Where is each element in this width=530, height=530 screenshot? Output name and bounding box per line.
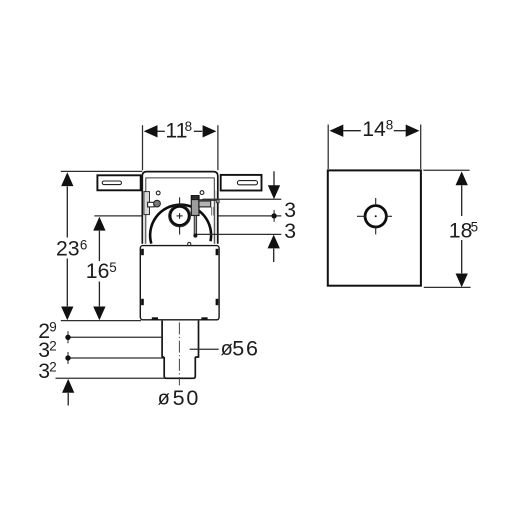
valve arm drop lines bbox=[210, 207, 212, 216]
supply union nut bbox=[154, 200, 161, 207]
svg-text:2: 2 bbox=[49, 360, 56, 375]
fill valve cap bbox=[192, 195, 199, 199]
hole top-right bbox=[200, 191, 204, 195]
pipe upper (d56) bbox=[162, 321, 198, 357]
supply bracket strip bbox=[144, 192, 150, 215]
dim 14.8 extension line right bbox=[420, 125, 422, 170]
label 3.2 lower bbox=[38, 360, 57, 383]
tank tab mid-left bbox=[141, 299, 144, 305]
frame outer housing bbox=[142, 172, 218, 244]
dim 11.8 extension line right bbox=[217, 125, 219, 170]
svg-text:9: 9 bbox=[49, 320, 56, 335]
supply elbow stub bbox=[148, 202, 155, 207]
svg-text:5: 5 bbox=[471, 219, 478, 234]
plate circle crosshair bbox=[357, 198, 392, 234]
flange left bbox=[97, 175, 140, 190]
dim 16.5 vertical line with arrows bbox=[93, 217, 105, 320]
svg-text:ø: ø bbox=[158, 388, 170, 410]
svg-text:18: 18 bbox=[449, 220, 473, 243]
svg-text:14: 14 bbox=[362, 118, 386, 141]
frame wall cavity left bbox=[143, 191, 145, 244]
pipe centerline bbox=[178, 322, 180, 385]
pipe lower (d50) bbox=[164, 357, 195, 378]
tank tab top-right bbox=[216, 249, 219, 255]
valve arm stub through wall bbox=[216, 200, 219, 203]
tank foot left bbox=[152, 317, 158, 320]
svg-text:8: 8 bbox=[185, 119, 192, 134]
dim 14.8 extension line left bbox=[327, 125, 329, 170]
centerline (line B) right part bbox=[191, 215, 282, 217]
label 16.5 bbox=[86, 260, 117, 283]
inlet circle bbox=[169, 205, 191, 227]
valve arm top strip bbox=[200, 200, 211, 202]
right dot terminator bbox=[271, 210, 276, 222]
actuator plate bbox=[328, 170, 421, 285]
label d50 bbox=[158, 386, 201, 410]
centerline through inlet (line B) left part bbox=[94, 215, 169, 217]
svg-text:8: 8 bbox=[386, 118, 393, 133]
svg-text:3: 3 bbox=[284, 199, 296, 222]
dim line A (flange level) bbox=[203, 198, 282, 200]
valve rod tip bbox=[193, 234, 197, 238]
dim 14.8 line bbox=[330, 125, 420, 137]
dim 3.2 line with dot bbox=[65, 352, 164, 364]
label 18.5 bbox=[449, 219, 478, 242]
svg-text:ø: ø bbox=[221, 338, 233, 360]
valve rod bbox=[194, 216, 196, 235]
svg-text:5: 5 bbox=[109, 260, 116, 275]
tank tab top-left bbox=[141, 249, 144, 255]
inlet crosshair bbox=[177, 197, 183, 234]
label 11.8 bbox=[165, 119, 192, 143]
right up arrow bbox=[268, 235, 280, 262]
dim 11.8 line bbox=[144, 125, 217, 137]
svg-text:56: 56 bbox=[232, 336, 260, 360]
svg-text:50: 50 bbox=[173, 386, 201, 410]
bottom up arrow bbox=[62, 379, 74, 406]
frame inner wall bbox=[146, 178, 215, 244]
valve arm bbox=[199, 200, 211, 207]
frame wall cavity right bbox=[215, 191, 217, 244]
svg-text:23: 23 bbox=[56, 238, 80, 261]
dim 11.8 extension line left bbox=[142, 125, 144, 170]
dim line C (rod level) bbox=[197, 233, 281, 235]
right down arrow bbox=[268, 171, 280, 199]
dim 23.6 vertical line with arrows bbox=[61, 172, 73, 320]
fill valve column bbox=[191, 196, 199, 216]
leader d56 bbox=[190, 348, 219, 350]
svg-text:16: 16 bbox=[86, 260, 110, 283]
label 23.6 bbox=[56, 238, 87, 261]
dim 2.9 line with dot bbox=[65, 331, 162, 343]
svg-text:6: 6 bbox=[80, 238, 87, 253]
dim 23.6 bottom extension line bbox=[61, 320, 141, 322]
dim 18.5 vertical line bbox=[456, 171, 468, 287]
svg-text:3: 3 bbox=[284, 220, 296, 243]
flange right bbox=[221, 175, 262, 191]
label 3.2 upper bbox=[38, 339, 57, 362]
inlet circle white core bbox=[168, 205, 190, 227]
label d56 bbox=[221, 336, 260, 360]
dim 18.5 bottom extension bbox=[424, 286, 471, 288]
tank top notch bbox=[188, 242, 191, 245]
dim 18.5 top extension bbox=[423, 169, 469, 171]
dim 23.6 top extension line bbox=[61, 170, 143, 172]
flush bend arc bbox=[150, 205, 211, 244]
label 2.9 bbox=[38, 320, 57, 343]
svg-text:3: 3 bbox=[38, 360, 50, 383]
tank protection box bbox=[140, 246, 219, 320]
plate button circle bbox=[364, 205, 387, 228]
tank tab mid-right bbox=[216, 299, 219, 305]
svg-text:2: 2 bbox=[49, 339, 56, 354]
label 14.8 bbox=[362, 118, 393, 141]
svg-text:3: 3 bbox=[38, 339, 50, 362]
tank foot right bbox=[201, 317, 207, 320]
hole top-left bbox=[156, 191, 160, 195]
bottom dim line (pipe bottom level) bbox=[56, 377, 166, 379]
